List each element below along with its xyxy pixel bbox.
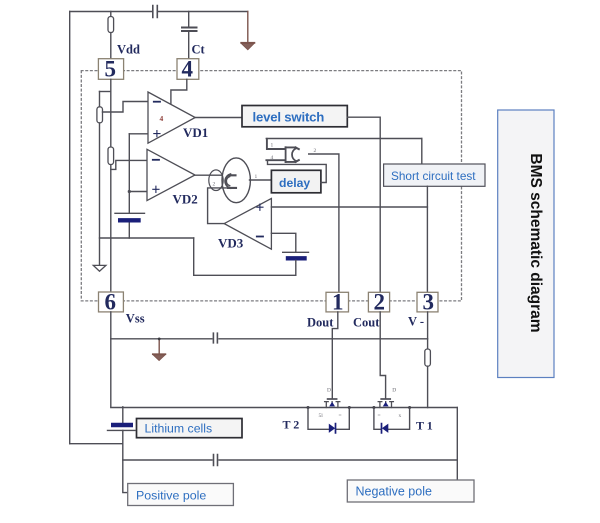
- pin box 6: [99, 292, 124, 312]
- wire battery lithium top: [122, 407, 124, 423]
- node T1 right: [408, 406, 411, 409]
- svg-text:4: 4: [271, 155, 274, 161]
- wire IC ground bus: [100, 237, 194, 239]
- node T1 left: [372, 406, 375, 409]
- wire VD1 output: [195, 117, 242, 119]
- svg-text:3: 3: [423, 290, 435, 315]
- transistor T1: [378, 399, 393, 408]
- wire R3 to VD2 inverting: [111, 160, 147, 169]
- svg-text:2: 2: [314, 148, 317, 154]
- ground top: [241, 12, 254, 50]
- svg-text:4: 4: [160, 114, 164, 123]
- pin box 4: [177, 59, 199, 80]
- capacitor Ct: [182, 28, 197, 32]
- svg-text:4: 4: [182, 57, 194, 82]
- svg-text:Vdd: Vdd: [117, 43, 140, 57]
- wire right drop: [456, 408, 458, 480]
- svg-text:Positive pole: Positive pole: [136, 489, 206, 503]
- svg-text:D: D: [327, 388, 331, 394]
- latch C gate: [286, 147, 299, 162]
- transistor T2: [325, 399, 340, 408]
- wire level switch to pin 2: [347, 117, 380, 292]
- wire Vss down: [110, 312, 112, 407]
- wire pin1 to T2 gate: [332, 312, 338, 398]
- pin box 1: [326, 292, 349, 312]
- capacitor C3: [214, 455, 218, 466]
- wire VD2 output: [195, 174, 230, 176]
- svg-text:Vss: Vss: [126, 312, 145, 326]
- wire pin2 to T1 gate: [380, 312, 385, 398]
- capacitor C2: [213, 333, 217, 343]
- wire divider mid: [110, 79, 112, 292]
- Negative pole box: [347, 480, 474, 502]
- capacitor C1: [153, 6, 158, 18]
- svg-text:2: 2: [213, 182, 216, 188]
- ground mid: [153, 338, 166, 361]
- pin box 5: [98, 59, 123, 80]
- delay box: [271, 170, 321, 193]
- Lithium cells box: [137, 419, 243, 438]
- level switch box: [242, 106, 347, 127]
- wire box4 to VD1: [171, 79, 187, 103]
- wire left outer to battery: [70, 443, 123, 445]
- Positive pole box: [128, 484, 234, 506]
- svg-text:Ct: Ct: [192, 43, 206, 57]
- wire divider left: [99, 92, 101, 266]
- op-amp VD3: [224, 198, 271, 249]
- pin box 2: [368, 292, 389, 312]
- svg-text:delay: delay: [279, 176, 310, 190]
- svg-text:T 1: T 1: [416, 419, 433, 433]
- wire reference rail: [128, 134, 130, 238]
- BMS schematic diagram box: [498, 110, 554, 378]
- diode D2: [329, 424, 335, 433]
- battery B2: [283, 252, 309, 258]
- wire box5 branch: [100, 91, 111, 93]
- svg-text:Lithium cells: Lithium cells: [145, 422, 213, 436]
- wire link to short test: [421, 139, 423, 165]
- svg-text:5l: 5l: [319, 413, 324, 419]
- node ref junction: [128, 190, 131, 193]
- svg-text:6: 6: [105, 290, 117, 315]
- wire pin3 to drain bus: [427, 312, 429, 408]
- wire mid bus: [111, 338, 428, 340]
- wire Ct lead: [188, 12, 190, 59]
- svg-text:Cout: Cout: [353, 315, 380, 329]
- node T2 left: [307, 406, 310, 409]
- svg-text:D: D: [392, 388, 396, 394]
- wire VD3 noninverting: [271, 206, 427, 208]
- op-amp VD2: [147, 149, 195, 200]
- svg-text:Negative pole: Negative pole: [356, 485, 432, 499]
- resistor R3: [108, 147, 114, 165]
- svg-text:=: =: [339, 413, 342, 419]
- svg-text:Short circuit test: Short circuit test: [391, 169, 476, 183]
- svg-text:VD2: VD2: [173, 191, 198, 206]
- resistor R4: [425, 349, 431, 366]
- svg-text:1: 1: [255, 174, 258, 180]
- battery lithium: [108, 425, 136, 430]
- svg-text:5: 5: [105, 57, 117, 82]
- T1 body loop: [374, 408, 410, 430]
- svg-text:VD1: VD1: [183, 125, 208, 140]
- wire VD2 noninverting: [129, 191, 147, 193]
- wire VD1 noninverting: [129, 133, 147, 135]
- wire VD3 output to gate: [208, 188, 229, 224]
- diode D1: [382, 424, 388, 433]
- svg-text:Dout: Dout: [307, 315, 334, 329]
- pin box 3: [417, 292, 438, 312]
- wire R2 tap to VD1 inverting: [103, 102, 148, 113]
- wire Vdd lead: [110, 12, 112, 59]
- svg-text:1: 1: [271, 143, 274, 149]
- wire latch output to pin 1: [309, 154, 339, 292]
- wire top link: [266, 138, 422, 140]
- wire bottom bus: [123, 459, 458, 461]
- svg-text:BMS schematic diagram: BMS schematic diagram: [527, 153, 544, 332]
- T2 body loop: [308, 408, 349, 430]
- gate blob: [209, 158, 251, 203]
- wire short test to pin 3: [426, 186, 428, 292]
- latch input bars: [266, 139, 285, 160]
- resistor R1: [108, 17, 114, 33]
- wire left outer vertical: [69, 12, 71, 444]
- wire battery B2 return: [194, 238, 296, 275]
- wire gate output to delay: [250, 179, 272, 181]
- svg-text:1: 1: [332, 290, 344, 315]
- IC dashed boundary: [81, 71, 461, 301]
- resistor R2: [97, 107, 103, 123]
- battery B1 reference: [115, 213, 145, 220]
- svg-text:x: x: [399, 413, 402, 419]
- svg-text:=: =: [378, 413, 381, 419]
- wire top supply bus: [70, 11, 248, 13]
- wire VD3 inverting to battery: [271, 233, 295, 252]
- wire battery lithium bottom: [123, 430, 128, 492]
- svg-text:2: 2: [374, 290, 386, 315]
- wire delay feedback: [268, 160, 327, 182]
- svg-text:T 2: T 2: [283, 418, 300, 432]
- short circuit test box: [384, 164, 485, 186]
- wire drain bus: [111, 407, 458, 409]
- svg-text:V -: V -: [408, 314, 424, 328]
- node T2 right: [348, 406, 351, 409]
- op-amp VD1: [148, 92, 195, 143]
- svg-text:level switch: level switch: [253, 110, 325, 125]
- ground open triangle: [93, 265, 106, 271]
- svg-text:VD3: VD3: [218, 236, 244, 251]
